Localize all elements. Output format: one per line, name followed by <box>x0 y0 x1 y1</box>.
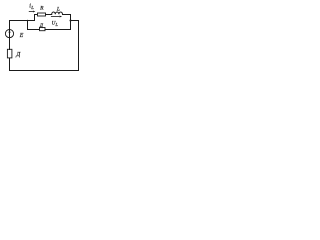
resistor R <box>38 13 46 16</box>
wire top-left horizontal <box>10 20 35 22</box>
background <box>0 0 100 80</box>
source E arrowhead <box>8 30 10 33</box>
wire right stub to rail <box>71 20 79 22</box>
wire top run to resistor <box>35 14 38 16</box>
current arrow iL <box>29 11 36 13</box>
source E arrow line <box>9 30 11 37</box>
wire middle branch drop <box>27 21 29 30</box>
wire middle branch right <box>45 29 71 31</box>
source E circle <box>5 29 13 37</box>
wire left jog up <box>34 15 36 21</box>
wire right rail <box>78 21 80 71</box>
svg-text:L: L <box>56 7 60 13</box>
diode D2 box <box>7 49 11 58</box>
wire inductor to right jog <box>63 14 71 16</box>
node right junction <box>70 20 72 22</box>
diode D1 box <box>40 28 46 31</box>
svg-text:R: R <box>39 5 44 11</box>
wire left rail lower <box>9 58 11 71</box>
wire left rail upper <box>9 21 11 50</box>
svg-text:E: E <box>19 33 24 39</box>
inductor L <box>52 12 63 14</box>
node left junction <box>27 20 29 22</box>
wire bottom <box>10 70 79 72</box>
wire middle branch left <box>28 29 40 31</box>
wire right vertical down to diode branch <box>70 15 72 30</box>
wire resistor to inductor <box>46 14 52 16</box>
svg-text:L: L <box>30 5 34 10</box>
voltage arrow uL <box>51 16 62 18</box>
